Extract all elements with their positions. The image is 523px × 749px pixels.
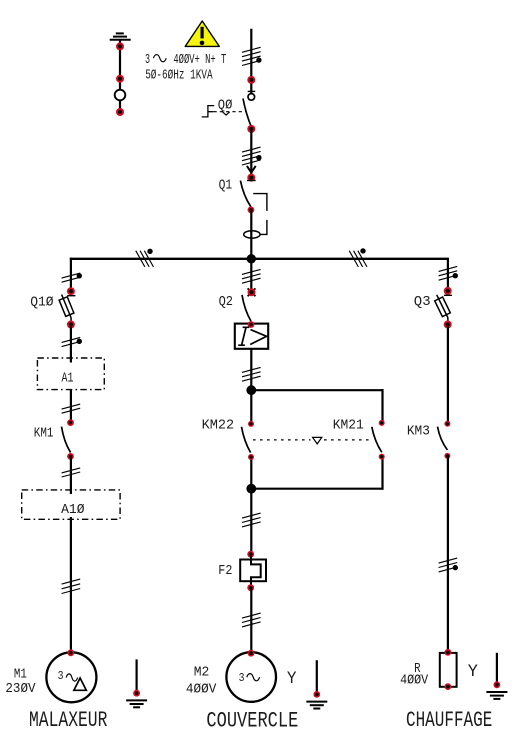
svg-text:23ØV: 23ØV: [5, 682, 36, 697]
svg-text:3: 3: [239, 671, 245, 685]
svg-text:4ØØV+ N+ T: 4ØØV+ N+ T: [173, 53, 226, 68]
svg-text:A1: A1: [62, 371, 74, 386]
svg-text:M1: M1: [14, 667, 27, 682]
svg-text:KM21: KM21: [333, 419, 364, 434]
svg-text:4ØØV: 4ØØV: [400, 674, 429, 689]
svg-text:Q1: Q1: [219, 178, 233, 193]
svg-text:Y: Y: [468, 662, 478, 682]
svg-text:COUVERCLE: COUVERCLE: [206, 708, 298, 733]
svg-text:3: 3: [145, 53, 150, 68]
svg-text:Q2: Q2: [219, 295, 233, 310]
svg-text:KM3: KM3: [407, 424, 430, 439]
svg-text:M2: M2: [194, 666, 210, 681]
svg-text:Q1Ø: Q1Ø: [30, 295, 53, 310]
svg-text:F2: F2: [218, 564, 232, 579]
svg-text:5Ø-6ØHz 1KVA: 5Ø-6ØHz 1KVA: [145, 69, 213, 84]
svg-text:Q3: Q3: [414, 295, 431, 310]
svg-text:MALAXEUR: MALAXEUR: [29, 708, 107, 733]
svg-text:CHAUFFAGE: CHAUFFAGE: [406, 708, 492, 733]
svg-text:Y: Y: [287, 669, 297, 689]
svg-text:KM22: KM22: [202, 418, 235, 433]
svg-text:4ØØV: 4ØØV: [186, 682, 217, 697]
svg-text:3: 3: [58, 669, 64, 683]
svg-text:KM1: KM1: [34, 426, 54, 441]
svg-text:A1Ø: A1Ø: [61, 503, 84, 518]
